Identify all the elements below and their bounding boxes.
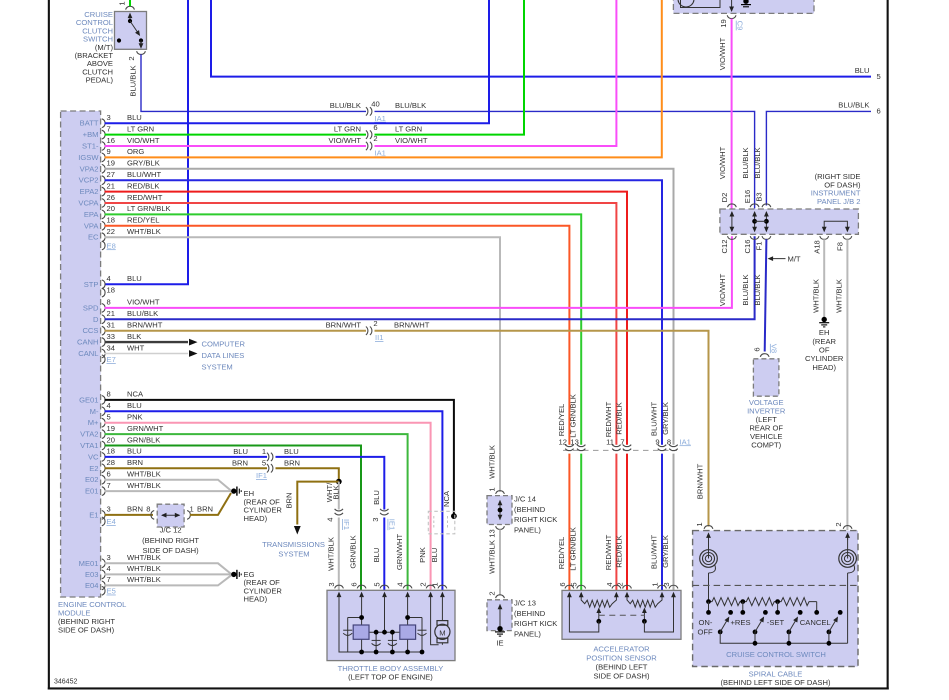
svg-text:RED/BLK: RED/BLK: [615, 535, 624, 568]
rotated labels on BLU/BLK wires above J/B: [741, 147, 762, 178]
svg-text:E1: E1: [89, 510, 98, 519]
clutch switch pin 2: [127, 51, 145, 60]
connector IF1 pin 1: [262, 447, 273, 461]
svg-text:GRY/BLK: GRY/BLK: [661, 402, 670, 435]
ECM pin bracket arcs group 1: [102, 119, 105, 250]
wire BLU connector IF1 to throttle body pin 5 (via IE1 pin 3): [276, 447, 385, 590]
svg-text:VIO/WHT: VIO/WHT: [718, 146, 727, 179]
svg-text:E03: E03: [85, 570, 99, 579]
svg-text:OF: OF: [819, 345, 830, 354]
svg-text:RED/YEL: RED/YEL: [557, 404, 566, 437]
wire VIO/WHT ECM ST1- pin 16 to connector IA1 pin 2: [105, 136, 367, 146]
svg-text:M+: M+: [88, 418, 99, 427]
accelerator sensor pin arcs and numbers 6 5 4 2 1 3: [558, 582, 678, 588]
ground EH (rear of cylinder head): [231, 487, 282, 523]
svg-text:GRN/BLK: GRN/BLK: [127, 435, 160, 444]
capacitor C-right in throttle body: [418, 630, 427, 635]
svg-text:F1: F1: [755, 242, 764, 251]
svg-text:VIO/WHT: VIO/WHT: [718, 37, 727, 70]
wire WHT/BLK ECM E03 pin 4 to ground EG: [105, 564, 232, 574]
svg-text:BRN/WHT: BRN/WHT: [696, 463, 705, 499]
svg-text:6: 6: [558, 582, 567, 586]
voltage inverter (component box): [747, 359, 786, 450]
svg-text:26: 26: [107, 193, 115, 202]
cruise switch ON-OFF contact: [706, 602, 711, 615]
svg-text:WHT: WHT: [127, 343, 145, 352]
wire VIO/WHT connector C9 to J/B D2: [718, 19, 732, 209]
connector IE1 pin 3 on BLU wire: [371, 509, 396, 530]
wire BRN junction to transmissions system arrow: [284, 482, 339, 535]
svg-text:(LEFT TOP OF ENGINE): (LEFT TOP OF ENGINE): [348, 673, 433, 682]
ECM pin labels group 1 (BATT..EC): [78, 119, 99, 242]
node label TRANSMISSIONS SYSTEM: [262, 540, 325, 559]
svg-text:(BEHIND LEFT: (BEHIND LEFT: [596, 662, 648, 671]
svg-text:LT GRN: LT GRN: [334, 125, 361, 134]
svg-text:BRN: BRN: [197, 505, 213, 514]
svg-text:E16: E16: [743, 190, 752, 204]
ECM pin bracket arcs group 3: [102, 396, 105, 526]
svg-text:IE: IE: [496, 639, 503, 648]
svg-text:4: 4: [605, 582, 614, 586]
svg-text:1: 1: [695, 522, 704, 526]
svg-text:PANEL): PANEL): [514, 630, 541, 639]
svg-text:BRN: BRN: [127, 458, 143, 467]
svg-text:GRY/BLK: GRY/BLK: [661, 535, 670, 568]
svg-text:9: 9: [107, 147, 111, 156]
ground IE at J/C 13: [495, 626, 505, 648]
svg-text:BLU/WHT: BLU/WHT: [650, 402, 659, 437]
svg-text:4: 4: [107, 564, 111, 573]
cruise switch blade right: [827, 610, 843, 634]
svg-text:BLU/WHT: BLU/WHT: [650, 535, 659, 570]
svg-text:E02: E02: [85, 475, 99, 484]
svg-text:V8: V8: [770, 344, 779, 353]
svg-text:BLU/BLK: BLU/BLK: [395, 101, 426, 110]
svg-text:4: 4: [107, 401, 111, 410]
wire PNK ECM M+ pin 5 to throttle body pin 2: [105, 413, 431, 591]
wire NCA ECM GE01 pin 8 to unconnected end: [105, 390, 457, 519]
svg-text:6: 6: [350, 582, 359, 586]
svg-text:RED/WHT: RED/WHT: [127, 193, 163, 202]
svg-text:19: 19: [107, 424, 115, 433]
svg-text:RED/BLK: RED/BLK: [127, 181, 160, 190]
J/B bottom pin arcs and labels C12 C16 F1 A18 F8: [720, 236, 852, 254]
svg-text:1: 1: [488, 487, 497, 491]
rotated labels on wires below J/B: [718, 273, 844, 312]
svg-text:EPA2: EPA2: [80, 187, 99, 196]
svg-text:19: 19: [719, 19, 728, 27]
svg-text:18: 18: [107, 447, 115, 456]
capacitor C-mid-right in throttle body: [388, 640, 397, 645]
wire WHT/BLK junction to throttle body pin 3 (via IF1 pin 4): [325, 482, 341, 590]
connector IF1 pin 5: [256, 458, 273, 480]
svg-text:BRN/WHT: BRN/WHT: [394, 321, 430, 330]
wire BRN ECM E1 pin 3 to J/C 12 pin 8: [105, 505, 154, 515]
clutch switch pin 1: [118, 1, 135, 9]
svg-text:20: 20: [107, 204, 115, 213]
wire BLU ECM BATT pin 3 to top edge: [105, 0, 490, 123]
ECM pin bracket arcs group 4: [102, 559, 105, 595]
svg-text:GRN/WHT: GRN/WHT: [127, 424, 164, 433]
svg-text:19: 19: [107, 159, 115, 168]
svg-text:VCPA: VCPA: [78, 199, 99, 208]
svg-text:7: 7: [620, 437, 624, 446]
capacitor C-left in throttle body: [343, 630, 352, 635]
svg-text:22: 22: [107, 227, 115, 236]
svg-text:E01: E01: [85, 487, 99, 496]
svg-text:BLU: BLU: [284, 447, 299, 456]
svg-text:18: 18: [107, 286, 115, 295]
svg-text:VIO/WHT: VIO/WHT: [329, 136, 362, 145]
wire RED/YEL ECM VPA pin 18 to accelerator sensor pin 6 (via IA1 pin 12): [105, 216, 570, 590]
svg-text:VIO/WHT: VIO/WHT: [395, 136, 428, 145]
wire BRN ECM E2 pin 28 to connector IF1 pin 5: [105, 458, 268, 468]
svg-text:M: M: [439, 629, 445, 638]
J/B top pin arcs and labels D2 E16 B3: [720, 190, 771, 207]
svg-text:B3: B3: [755, 192, 764, 201]
svg-text:6: 6: [877, 107, 881, 116]
J/C 14 (junction connector): [487, 487, 557, 537]
wire BRN connector IF1 to junction: [276, 458, 339, 481]
wire GRN/WHT ECM VTA2 pin 19 to throttle body pin 4: [105, 424, 408, 590]
cruise switch blade +RES: [718, 610, 733, 634]
wire BLU/BLK J/B F1 to voltage inverter pin 6: [765, 239, 767, 351]
potentiometer 2 (accelerator sensor): [627, 598, 674, 633]
svg-text:1: 1: [190, 505, 194, 514]
svg-text:3: 3: [107, 505, 111, 514]
svg-text:21: 21: [107, 181, 115, 190]
svg-text:ST1-: ST1-: [82, 142, 99, 151]
svg-text:C12: C12: [720, 240, 729, 254]
svg-text:6: 6: [753, 347, 762, 351]
svg-text:RED/BLK: RED/BLK: [615, 402, 624, 435]
wire BLU ECM VC pin 18 to connector IF1 pin 1: [105, 447, 268, 457]
svg-text:F8: F8: [836, 242, 845, 251]
svg-text:BLU: BLU: [372, 548, 381, 563]
svg-text:(BEHIND: (BEHIND: [514, 609, 546, 618]
J/C 12 (junction connector): [142, 504, 199, 555]
svg-text:STP: STP: [84, 280, 99, 289]
wire BLU ECM M- pin 4 to throttle body pin 1: [105, 401, 443, 590]
spiral coil left: [700, 538, 718, 602]
svg-text:4: 4: [325, 518, 334, 522]
svg-text:PNK: PNK: [418, 547, 427, 563]
svg-text:2: 2: [127, 56, 136, 60]
svg-text:BLU: BLU: [127, 113, 142, 122]
wire BLU vertical from top edge down to ECM STP pin 4: [105, 0, 189, 284]
svg-text:GE01: GE01: [79, 395, 98, 404]
wire BLU/WHT ECM VCP2 pin 27 to accelerator sensor pin 1 (via IA1 pin 9): [105, 170, 663, 590]
J/B internal link A18-F8: [822, 221, 850, 232]
wire ORG ECM IGSW pin 9 to top edge: [105, 0, 662, 157]
svg-text:2: 2: [834, 522, 843, 526]
svg-text:C9: C9: [736, 21, 745, 31]
ECM STP pin 4 number and NC pin 18: [107, 274, 142, 294]
svg-text:VTA1: VTA1: [80, 441, 98, 450]
wire GRY/BLK ECM VPA2 pin 19 to accelerator sensor pin 3 (via IA1 pin 8): [105, 159, 674, 590]
voltage inverter pin 6: [753, 344, 779, 357]
spiral coil right: [839, 538, 857, 643]
svg-text:7: 7: [107, 124, 111, 133]
throttle body assembly (component box): [327, 590, 455, 681]
wire WHT/BLK J/C 14 pin 13 to J/C 13 pin 2: [488, 529, 501, 595]
spiral cable pin 2: [834, 522, 852, 528]
svg-text:COMPUTER: COMPUTER: [202, 340, 246, 349]
svg-text:BLU: BLU: [127, 447, 142, 456]
svg-text:ON-: ON-: [699, 618, 713, 627]
svg-text:LT GRN: LT GRN: [395, 125, 422, 134]
svg-text:RED/YEL: RED/YEL: [127, 216, 160, 225]
spiral cable (component box): [693, 531, 858, 688]
svg-text:BLU/WHT: BLU/WHT: [127, 170, 162, 179]
cruise control switch resistor ladder: [706, 598, 817, 606]
svg-text:BATT: BATT: [80, 119, 99, 128]
svg-text:RED/WHT: RED/WHT: [604, 401, 613, 437]
svg-text:WHT/BLK: WHT/BLK: [127, 470, 161, 479]
rotated wire labels below connector IA1: [557, 527, 670, 571]
svg-text:18: 18: [107, 216, 115, 225]
junction node on E2 branch: [336, 479, 342, 485]
svg-text:BRN: BRN: [284, 458, 300, 467]
cruise switch +RES contact stub: [740, 602, 745, 615]
ghost connector (unused) on PNK and BLU wires: [428, 511, 455, 534]
throttle position sensor element 1: [353, 625, 369, 639]
svg-text:DATA LINES: DATA LINES: [202, 351, 245, 360]
cruise switch position labels: [698, 618, 831, 637]
svg-text:PEDAL): PEDAL): [86, 76, 114, 85]
svg-text:PNK: PNK: [127, 413, 143, 422]
svg-text:IE1: IE1: [387, 519, 396, 530]
connector IA1 row (pins 12 13 11 7 9 8): [559, 437, 691, 450]
svg-text:(BEHIND: (BEHIND: [514, 505, 546, 514]
ECM pin labels group 3 (GE01..E1): [79, 395, 99, 519]
svg-text:D: D: [93, 315, 99, 324]
svg-text:SIDE OF DASH): SIDE OF DASH): [593, 671, 650, 680]
svg-text:33: 33: [107, 332, 115, 341]
svg-text:VCP2: VCP2: [79, 176, 99, 185]
svg-text:16: 16: [107, 136, 115, 145]
wire LT GRN from clutch switch pin 1 to top edge: [129, 0, 131, 6]
svg-text:IA1: IA1: [375, 148, 386, 157]
ECM pin labels group 2 (STP..CANL): [77, 280, 99, 358]
svg-text:GRN/WHT: GRN/WHT: [395, 534, 404, 571]
svg-text:ORG: ORG: [127, 147, 144, 156]
svg-text:BLU/BLK: BLU/BLK: [753, 147, 762, 178]
svg-text:(BEHIND RIGHT: (BEHIND RIGHT: [142, 536, 199, 545]
svg-text:BLU: BLU: [233, 447, 248, 456]
wire RED/BLK ECM EPA2 pin 21 to accelerator sensor pin 2 (via IA1 pin 7): [105, 181, 628, 590]
svg-text:E8: E8: [107, 241, 116, 250]
svg-text:7: 7: [107, 575, 111, 584]
svg-text:CANL: CANL: [78, 349, 98, 358]
spiral cable pin 1: [695, 522, 713, 528]
svg-text:27: 27: [107, 170, 115, 179]
node label COMPUTER DATA LINES SYSTEM: [202, 340, 246, 372]
svg-text:RED/YEL: RED/YEL: [557, 537, 566, 570]
svg-text:EC: EC: [88, 233, 99, 242]
svg-text:BLU/BLK: BLU/BLK: [127, 309, 158, 318]
svg-text:J/C 12: J/C 12: [160, 526, 182, 535]
J/B internal bus D2-C12: [730, 211, 735, 232]
ground EH at right: [805, 317, 844, 372]
svg-text:HEAD): HEAD): [244, 595, 268, 604]
svg-text:2: 2: [488, 591, 497, 595]
wire WHT/BLK ECM E02 pin 6 to ground EH: [105, 470, 232, 491]
svg-text:BLK: BLK: [127, 332, 141, 341]
connector IA1 pin 6: [366, 123, 378, 139]
svg-text:1: 1: [118, 1, 127, 5]
connector C9 pin 19: [719, 15, 745, 30]
svg-text:BRN: BRN: [284, 492, 293, 508]
ECM pin labels group 4 (ME01..E04): [79, 559, 99, 590]
svg-text:BLU/BLK: BLU/BLK: [838, 101, 869, 110]
svg-text:5: 5: [107, 413, 111, 422]
svg-text:WHT/BLK: WHT/BLK: [127, 481, 161, 490]
wire VIO/WHT ECM SPD pin 8 from J/B C12: [105, 236, 732, 308]
spiral cable pin entry arrows: [706, 532, 850, 540]
wire BRN/WHT ECM CCS pin 31 to connector II1 pin 2: [105, 321, 367, 331]
svg-text:J/C 13: J/C 13: [514, 599, 536, 608]
svg-text:9: 9: [655, 437, 659, 446]
throttle body pin arcs and numbers 3 6 5 4 2 1: [327, 582, 447, 588]
svg-text:BRN/WHT: BRN/WHT: [127, 321, 163, 330]
svg-text:4: 4: [396, 582, 405, 586]
svg-text:BLU/BLK: BLU/BLK: [753, 274, 762, 305]
svg-text:SPD: SPD: [83, 303, 99, 312]
J/C 13 (junction connector): [487, 591, 557, 638]
ground EG (rear of cylinder head): [231, 570, 282, 604]
svg-text:WHT/BLK: WHT/BLK: [127, 553, 161, 562]
wire BRN J/C 12 pin 1 to ground EH junction: [190, 493, 231, 515]
clutch switch internal contacts and blade: [117, 13, 143, 49]
svg-text:SIDE OF DASH): SIDE OF DASH): [58, 626, 115, 635]
dashed mechanical link between wipers: [599, 614, 645, 616]
wire LT GRN ECM +BM pin 7 to connector IA1 pin 6: [105, 124, 367, 134]
svg-text:IA1: IA1: [375, 114, 386, 123]
svg-text:GRN/BLK: GRN/BLK: [349, 535, 358, 568]
svg-text:HEAD): HEAD): [244, 514, 268, 523]
svg-text:VPA: VPA: [84, 221, 100, 230]
throttle position sensor element 2: [400, 625, 416, 639]
svg-text:LT GRN/BLK: LT GRN/BLK: [569, 527, 578, 571]
wire BLK ECM CANH pin 33 to data-link arrow: [105, 332, 198, 346]
svg-text:5: 5: [570, 582, 579, 586]
svg-text:3: 3: [371, 518, 380, 522]
svg-text:4: 4: [107, 274, 111, 283]
svg-text:VIO/WHT: VIO/WHT: [127, 136, 160, 145]
svg-text:E2: E2: [89, 464, 98, 473]
svg-text:2: 2: [373, 134, 377, 143]
svg-text:SYSTEM: SYSTEM: [278, 550, 309, 559]
svg-text:EPA: EPA: [84, 210, 100, 219]
svg-text:(BEHIND LEFT SIDE OF DASH): (BEHIND LEFT SIDE OF DASH): [721, 678, 831, 687]
svg-text:M/T: M/T: [788, 254, 801, 263]
engine control module (connector box): [58, 111, 126, 635]
wire BLU/BLK from clutch switch pin 2 down then right to connector IA1 pin 40: [128, 54, 366, 111]
J/B internal bus E16-C16 with junction: [752, 211, 757, 232]
svg-text:31: 31: [107, 321, 115, 330]
svg-text:E5: E5: [107, 587, 116, 596]
throttle body pin entry arrows: [337, 592, 445, 598]
svg-text:3: 3: [662, 582, 671, 586]
svg-text:VPA2: VPA2: [80, 164, 99, 173]
spiral cable internal divider: [693, 584, 858, 586]
wire GRN/BLK ECM VTA1 pin 20 to throttle body pin 6: [105, 435, 362, 590]
svg-text:5: 5: [262, 458, 266, 467]
svg-text:E04: E04: [85, 581, 99, 590]
accelerator position sensor (component box): [562, 590, 681, 680]
wire WHT/BLK ECM E01 pin 7 to ground EH: [105, 481, 232, 491]
svg-text:2: 2: [419, 582, 428, 586]
svg-text:1: 1: [651, 582, 660, 586]
svg-text:BLK: BLK: [331, 485, 340, 499]
connector IA1 pin 2: [366, 134, 386, 157]
cruise control clutch switch (component box): [75, 10, 147, 85]
svg-text:LT GRN/BLK: LT GRN/BLK: [127, 204, 171, 213]
svg-text:WHT/BLK: WHT/BLK: [127, 575, 161, 584]
svg-text:40: 40: [371, 100, 379, 109]
cruise switch CANCEL contact stub: [814, 602, 819, 615]
svg-text:VC: VC: [88, 452, 99, 461]
cruise switch -SET contact stub: [775, 602, 780, 615]
svg-text:PANEL): PANEL): [514, 525, 541, 534]
svg-text:8: 8: [146, 505, 150, 514]
cruise switch common rail: [720, 632, 847, 646]
wire WHT ECM CANL pin 34 to data-link arrow: [105, 343, 198, 357]
svg-text:TRANSMISSIONS: TRANSMISSIONS: [262, 540, 325, 549]
rotated wire labels above connector IA1: [557, 394, 670, 438]
svg-text:IF1: IF1: [342, 519, 351, 530]
svg-text:D2: D2: [720, 193, 729, 203]
svg-text:+RES: +RES: [731, 618, 751, 627]
svg-text:34: 34: [107, 343, 115, 352]
svg-text:OFF: OFF: [698, 628, 714, 637]
svg-text:IGSW: IGSW: [78, 153, 99, 162]
wire BRN/WHT connector II1 to spiral cable pin 1: [375, 321, 709, 527]
svg-text:E4: E4: [107, 517, 116, 526]
svg-text:VIO/WHT: VIO/WHT: [718, 273, 727, 306]
svg-text:6: 6: [107, 470, 111, 479]
M/T callout arrow at F1 wire: [768, 254, 801, 263]
svg-text:VIO/WHT: VIO/WHT: [127, 298, 160, 307]
svg-text:3: 3: [107, 553, 111, 562]
wire WHT/BLK ECM EC pin 22 to J/C 14 pin 1: [105, 227, 501, 492]
J/B internal bus B3-F1 with junction: [755, 211, 769, 232]
svg-text:-SET: -SET: [767, 618, 785, 627]
cruise switch blade -SET: [753, 610, 768, 634]
svg-text:HEAD): HEAD): [812, 363, 836, 372]
svg-text:LT GRN/BLK: LT GRN/BLK: [569, 394, 578, 438]
svg-text:COMPT): COMPT): [751, 441, 781, 450]
svg-text:RIGHT KICK: RIGHT KICK: [514, 619, 557, 628]
svg-text:GRY/BLK: GRY/BLK: [127, 159, 160, 168]
svg-text:+BM: +BM: [83, 130, 99, 139]
svg-text:CCS: CCS: [82, 326, 98, 335]
wire BLU/BLK ECM D pin 21 from J/B C16: [105, 236, 755, 319]
svg-text:11: 11: [606, 437, 614, 446]
svg-text:8: 8: [667, 437, 671, 446]
svg-text:BLU/BLK: BLU/BLK: [330, 101, 361, 110]
wire WHT/BLK J/B F8 to spiral cable pin 2: [846, 239, 848, 530]
svg-text:E7: E7: [107, 355, 116, 364]
svg-text:6: 6: [373, 123, 377, 132]
svg-text:IF1: IF1: [256, 471, 267, 480]
connector II1 pin 2: [366, 319, 384, 342]
svg-text:CANCEL: CANCEL: [800, 618, 831, 627]
svg-text:BRN: BRN: [232, 458, 248, 467]
wire BLU/BLK from J/B B3 up then right to page edge pin 6: [766, 101, 880, 206]
wire RED/WHT ECM VCPA pin 26 to accelerator sensor pin 4 (via IA1 pin 11): [105, 193, 617, 590]
